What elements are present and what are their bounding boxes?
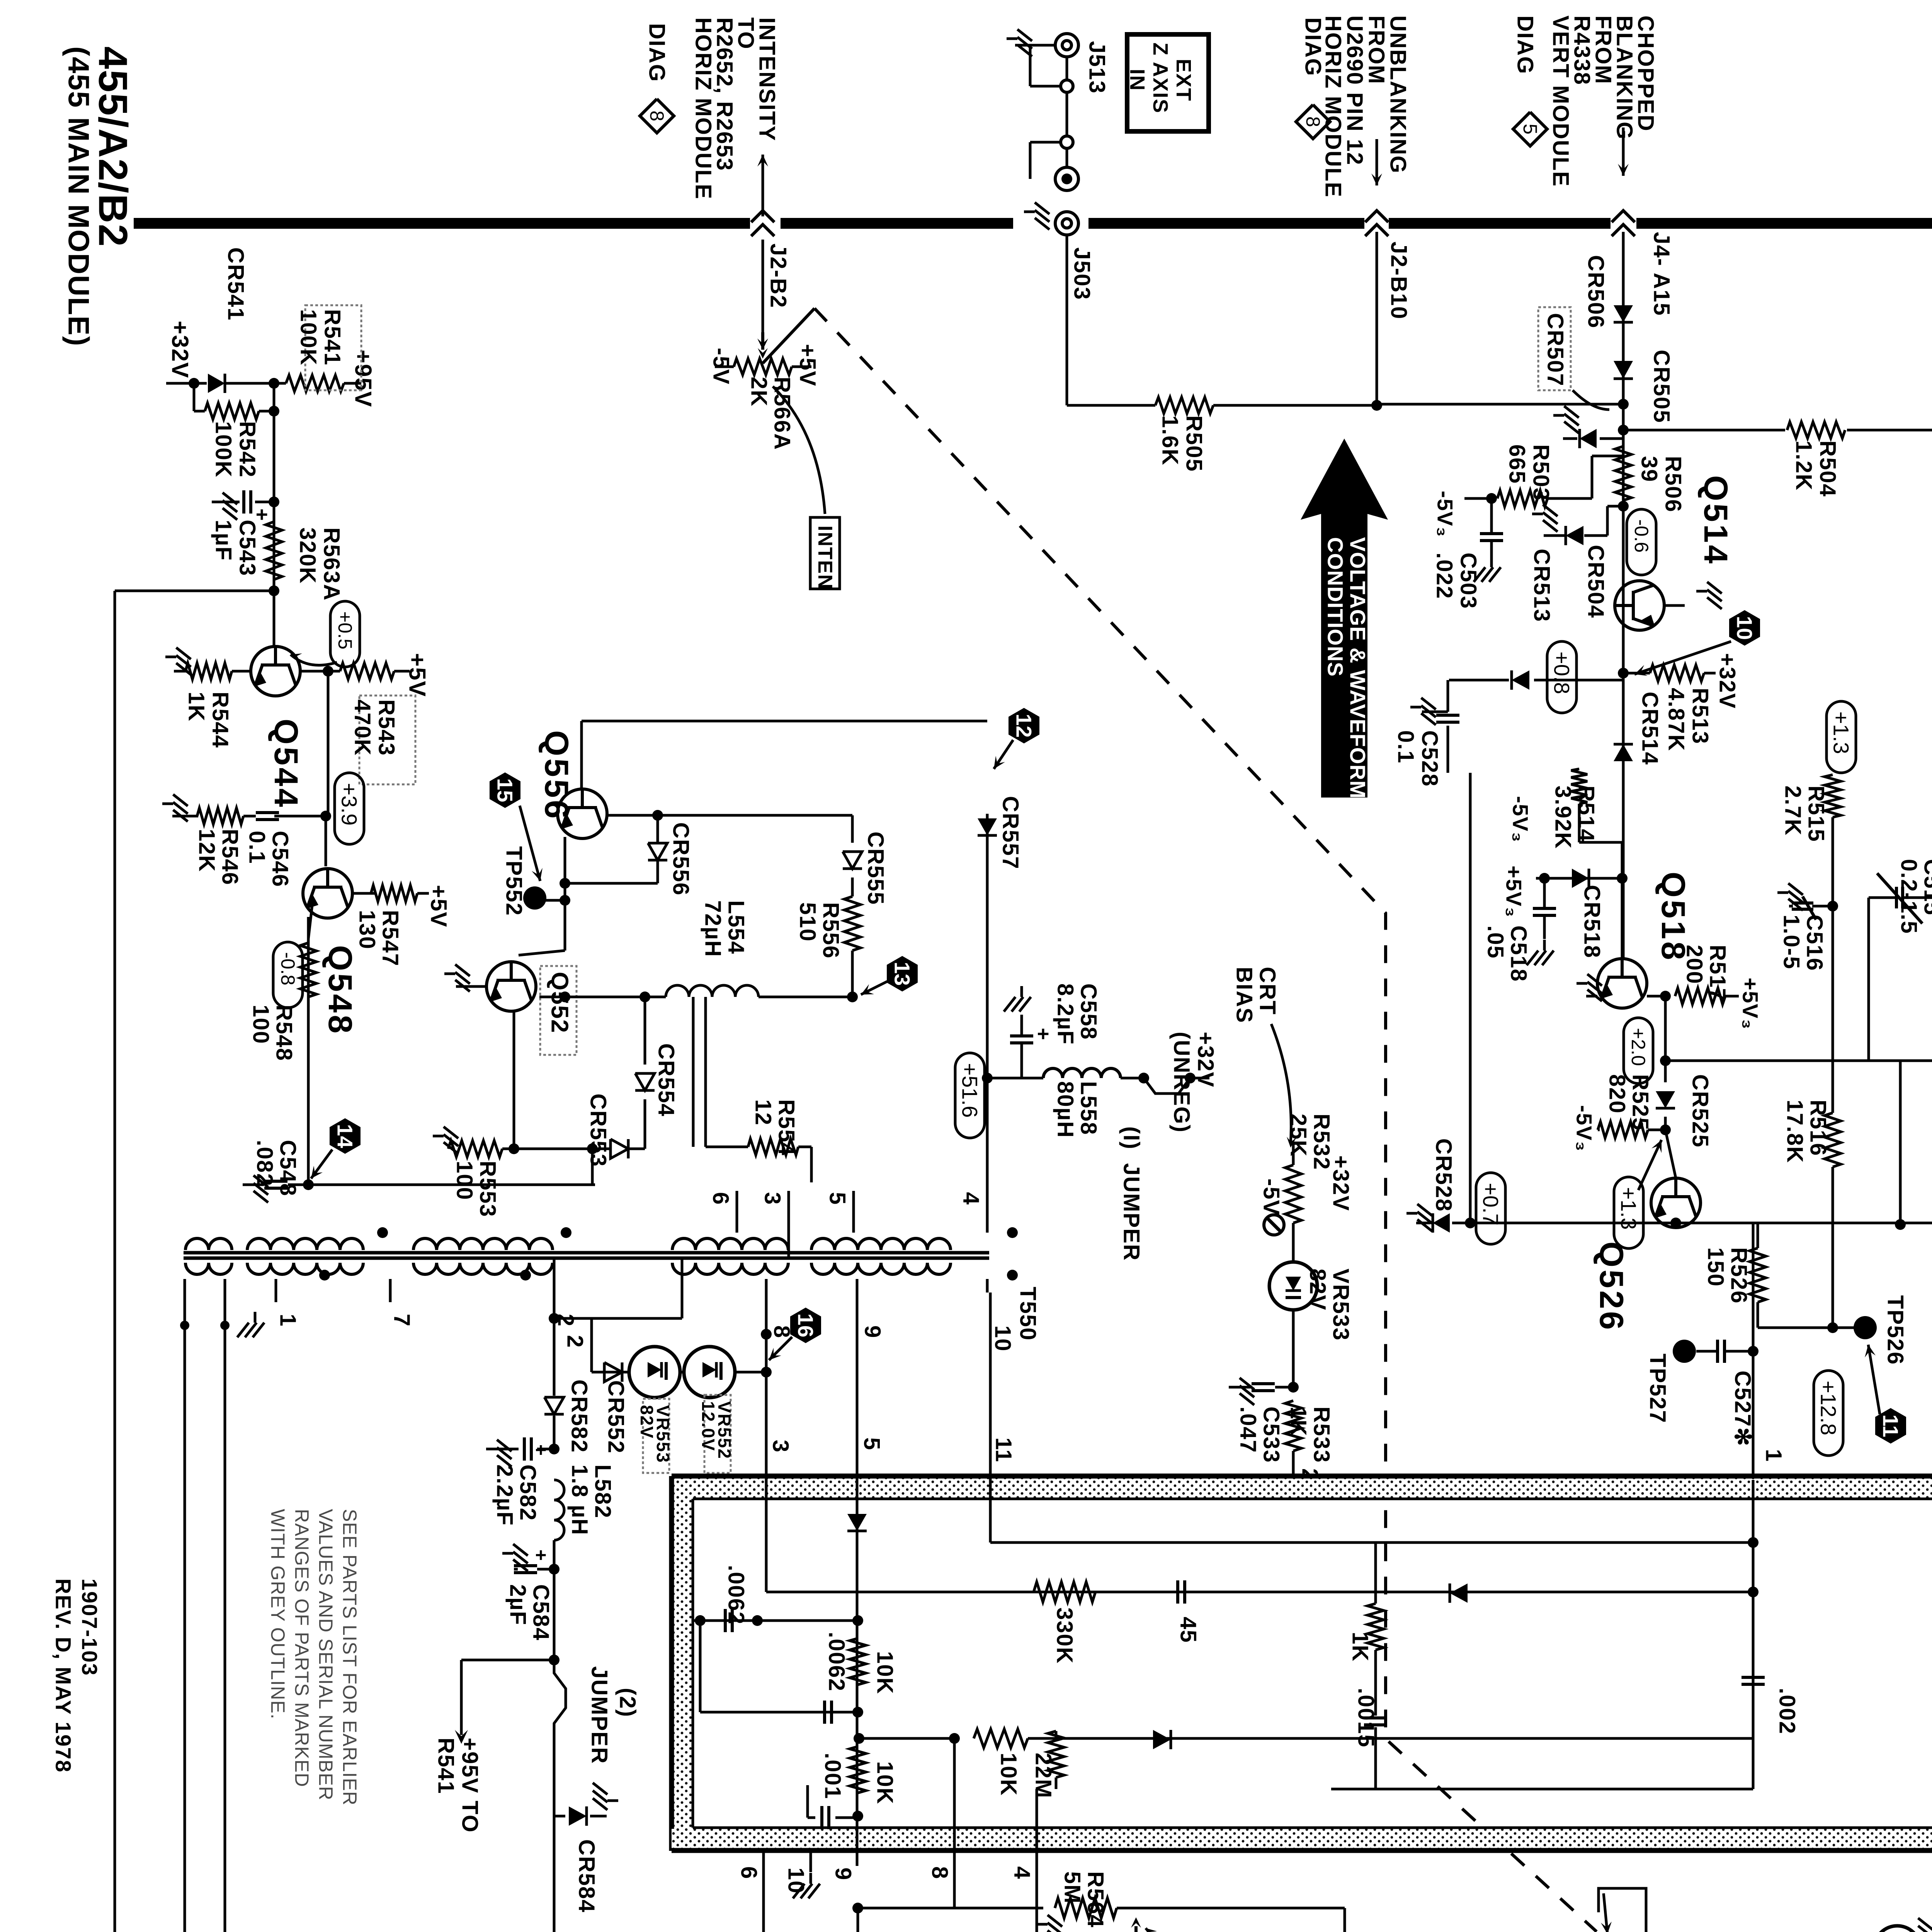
svg-text:(2): (2)	[615, 1688, 640, 1718]
svg-text:J513: J513	[1085, 41, 1110, 94]
svg-text:C533: C533	[1259, 1406, 1284, 1463]
svg-text:R513: R513	[1688, 688, 1713, 745]
svg-text:1µF: 1µF	[211, 520, 236, 561]
svg-text:4: 4	[959, 1192, 984, 1205]
svg-text:4.87K: 4.87K	[1664, 688, 1689, 752]
svg-text:16: 16	[794, 1313, 818, 1337]
svg-text:+5V: +5V	[426, 885, 451, 928]
svg-text:100: 100	[248, 1005, 274, 1044]
svg-text:-5V₃: -5V₃	[1509, 796, 1533, 843]
svg-text:J503: J503	[1070, 247, 1095, 300]
svg-text:3: 3	[760, 1192, 785, 1205]
svg-text:TP527: TP527	[1645, 1354, 1670, 1423]
svg-text:L558: L558	[1076, 1081, 1101, 1135]
svg-text:5: 5	[1519, 124, 1541, 134]
svg-text:1K: 1K	[1286, 1406, 1311, 1437]
svg-text:C527✻: C527✻	[1730, 1371, 1755, 1447]
svg-text:CR513: CR513	[1529, 549, 1554, 622]
svg-text:VR533: VR533	[1328, 1269, 1354, 1341]
svg-text:+32V: +32V	[1328, 1155, 1354, 1211]
svg-text:8: 8	[927, 1866, 952, 1879]
svg-text:-5V₃: -5V₃	[1572, 1105, 1597, 1152]
svg-text:CR528: CR528	[1431, 1138, 1456, 1212]
svg-text:200: 200	[1682, 945, 1707, 985]
svg-text:6: 6	[708, 1192, 733, 1205]
svg-text:DIAG: DIAG	[1301, 17, 1326, 77]
svg-text:5: 5	[825, 1192, 850, 1205]
svg-text:SEE PARTS LIST FOR EARLIER: SEE PARTS LIST FOR EARLIER	[339, 1509, 361, 1806]
svg-text:0.1: 0.1	[245, 831, 270, 864]
svg-text:+1.3: +1.3	[1829, 711, 1854, 754]
svg-text:TP552: TP552	[502, 846, 527, 916]
svg-text:12K: 12K	[194, 829, 219, 872]
svg-text:25K: 25K	[1286, 1114, 1311, 1157]
svg-text:3.92K: 3.92K	[1551, 786, 1576, 849]
svg-text:R526: R526	[1726, 1247, 1752, 1304]
svg-text:1907-103: 1907-103	[78, 1578, 102, 1676]
svg-text:1.8 µH: 1.8 µH	[567, 1464, 592, 1536]
svg-text:C558: C558	[1076, 983, 1101, 1040]
svg-text:EXT: EXT	[1172, 59, 1195, 102]
svg-text:10K: 10K	[996, 1753, 1021, 1796]
svg-text:11: 11	[1879, 1414, 1903, 1437]
svg-text:CR555: CR555	[863, 832, 888, 905]
svg-text:+95V: +95V	[350, 350, 376, 408]
svg-text:+: +	[530, 1444, 552, 1456]
svg-text:5M: 5M	[1060, 1871, 1085, 1904]
svg-text:DIAG: DIAG	[1513, 15, 1538, 75]
svg-text:9: 9	[831, 1867, 856, 1881]
svg-text:INTEN: INTEN	[814, 526, 836, 590]
svg-text:R504: R504	[1815, 440, 1840, 497]
svg-text:R547: R547	[378, 910, 403, 967]
svg-text:1: 1	[276, 1314, 301, 1327]
svg-text:+0.7: +0.7	[1479, 1183, 1503, 1226]
svg-text:CR506: CR506	[1583, 255, 1609, 329]
svg-text:+12.8: +12.8	[1816, 1381, 1841, 1435]
svg-text:2: 2	[563, 1335, 588, 1348]
svg-text:CR557: CR557	[998, 796, 1023, 870]
svg-text:320K: 320K	[295, 527, 320, 584]
svg-text:JUMPER: JUMPER	[587, 1666, 612, 1764]
svg-text:DIAG: DIAG	[645, 23, 670, 82]
svg-text:0.1: 0.1	[1393, 730, 1418, 764]
svg-text:13: 13	[890, 962, 915, 986]
svg-text:665: 665	[1505, 444, 1530, 484]
svg-text:R525: R525	[1628, 1074, 1653, 1131]
svg-text:CR541: CR541	[223, 247, 248, 321]
svg-text:CR507: CR507	[1543, 313, 1568, 387]
svg-text:8.2µF: 8.2µF	[1053, 983, 1078, 1045]
svg-text:11: 11	[991, 1437, 1016, 1463]
svg-text:2µF: 2µF	[505, 1584, 531, 1626]
svg-text:R553: R553	[475, 1161, 500, 1218]
svg-text:.001: .001	[820, 1753, 845, 1799]
svg-text:+5V: +5V	[405, 653, 430, 697]
svg-text:+32V: +32V	[1715, 653, 1740, 709]
svg-text:R514: R514	[1574, 786, 1599, 842]
svg-text:C582: C582	[515, 1464, 541, 1521]
svg-text:1.2K: 1.2K	[1791, 440, 1816, 491]
svg-text:CR525: CR525	[1688, 1074, 1713, 1148]
svg-text:820: 820	[1605, 1074, 1630, 1114]
svg-text:-5V: -5V	[709, 348, 734, 385]
svg-text:R554: R554	[774, 1099, 799, 1156]
svg-text:HORIZ MODULE: HORIZ MODULE	[691, 17, 716, 200]
svg-text:-0.8: -0.8	[277, 952, 299, 985]
svg-text:R506: R506	[1661, 456, 1686, 513]
svg-text:2K: 2K	[747, 377, 772, 407]
svg-text:Q552: Q552	[546, 972, 573, 1034]
svg-text:8: 8	[646, 111, 668, 121]
svg-text:+32V: +32V	[1193, 1032, 1218, 1088]
svg-text:Q526: Q526	[1593, 1242, 1630, 1332]
svg-text:RANGES OF PARTS MARKED: RANGES OF PARTS MARKED	[291, 1509, 313, 1787]
svg-text:WITH GREY OUTLINE.: WITH GREY OUTLINE.	[267, 1509, 289, 1719]
svg-text:1K: 1K	[184, 692, 209, 722]
svg-text:.0062: .0062	[724, 1565, 749, 1625]
svg-text:R541: R541	[434, 1738, 459, 1794]
svg-text:CR584: CR584	[574, 1839, 599, 1913]
svg-text:CONDITIONS: CONDITIONS	[1323, 537, 1348, 677]
svg-text:C548: C548	[276, 1140, 301, 1197]
svg-text:+: +	[1032, 1028, 1055, 1041]
svg-text:+0.8: +0.8	[1550, 651, 1574, 694]
svg-text:L554: L554	[724, 900, 749, 954]
svg-text:VERT MODULE: VERT MODULE	[1548, 15, 1573, 187]
svg-text:5: 5	[859, 1437, 884, 1451]
svg-text:R505: R505	[1182, 415, 1207, 472]
svg-text:R548: R548	[272, 1005, 297, 1061]
svg-text:Q544: Q544	[267, 719, 304, 809]
svg-text:72µH: 72µH	[701, 900, 726, 957]
svg-text:CR552: CR552	[604, 1380, 629, 1454]
svg-text:L582: L582	[590, 1464, 616, 1519]
svg-text:.047: .047	[1236, 1406, 1261, 1453]
svg-text:R541: R541	[320, 309, 345, 366]
svg-text:CR518: CR518	[1580, 885, 1605, 959]
svg-text:+95V TO: +95V TO	[457, 1738, 483, 1833]
svg-text:(I): (I)	[1119, 1126, 1144, 1150]
svg-text:7: 7	[389, 1314, 415, 1327]
svg-text:+2.0: +2.0	[1628, 1028, 1649, 1066]
svg-text:.05: .05	[1483, 925, 1508, 959]
svg-text:CR505: CR505	[1649, 350, 1674, 423]
svg-text:-5V: -5V	[1259, 1179, 1284, 1216]
svg-text:2.2µF: 2.2µF	[492, 1464, 517, 1526]
svg-text:CR553: CR553	[586, 1094, 611, 1167]
svg-text:10: 10	[990, 1325, 1015, 1352]
svg-text:80µH: 80µH	[1053, 1081, 1078, 1138]
svg-text:T550: T550	[1015, 1287, 1041, 1341]
svg-text:CR554: CR554	[654, 1043, 679, 1117]
svg-text:+32V: +32V	[167, 321, 193, 379]
svg-text:-5V₃: -5V₃	[1433, 491, 1458, 537]
svg-text:130: 130	[355, 910, 380, 950]
svg-text:C546: C546	[268, 831, 293, 888]
svg-text:R533: R533	[1309, 1406, 1334, 1463]
svg-text:R542: R542	[235, 421, 260, 478]
svg-text:+3.9: +3.9	[337, 783, 362, 826]
svg-text:1K: 1K	[1348, 1632, 1373, 1662]
svg-text:C528: C528	[1417, 730, 1442, 787]
svg-text:+51.6: +51.6	[958, 1063, 982, 1118]
svg-text:CRT: CRT	[1255, 967, 1280, 1015]
svg-text:R543: R543	[374, 699, 399, 756]
svg-text:-0.6: -0.6	[1631, 519, 1652, 553]
svg-text:510: 510	[795, 902, 820, 942]
svg-text:1: 1	[1761, 1449, 1786, 1462]
svg-text:CR556: CR556	[668, 822, 694, 896]
svg-text:C518: C518	[1506, 925, 1531, 982]
svg-text:C543: C543	[235, 520, 260, 577]
svg-text:455/A2/B2: 455/A2/B2	[90, 46, 136, 247]
svg-text:Q514: Q514	[1697, 475, 1734, 566]
svg-text:R556: R556	[818, 902, 844, 959]
svg-text:470K: 470K	[350, 699, 375, 756]
svg-text:1.6K: 1.6K	[1158, 415, 1183, 466]
svg-text:+: +	[530, 1549, 552, 1561]
svg-text:C503: C503	[1456, 553, 1481, 609]
svg-text:C516: C516	[1802, 915, 1827, 971]
svg-text:VALUES AND SERIAL NUMBER: VALUES AND SERIAL NUMBER	[315, 1509, 337, 1801]
svg-text:REV. D, MAY 1978: REV. D, MAY 1978	[51, 1578, 76, 1773]
svg-text:1.0-5: 1.0-5	[1779, 915, 1804, 969]
svg-text:CR582: CR582	[567, 1379, 592, 1453]
svg-text:9: 9	[860, 1325, 885, 1338]
svg-text:(455 MAIN MODULE): (455 MAIN MODULE)	[62, 46, 95, 347]
svg-text:R546: R546	[218, 829, 243, 886]
svg-text:R564: R564	[1083, 1871, 1108, 1928]
svg-text:100: 100	[452, 1161, 477, 1201]
svg-text:J2-B2: J2-B2	[766, 243, 791, 308]
svg-text:R544: R544	[208, 692, 233, 748]
svg-text:IN: IN	[1126, 69, 1149, 91]
svg-text:+0.5: +0.5	[334, 611, 356, 650]
svg-text:R517: R517	[1705, 945, 1730, 1002]
svg-text:10: 10	[1733, 616, 1757, 640]
svg-text:.002: .002	[1775, 1688, 1800, 1735]
svg-text:Z AXIS: Z AXIS	[1149, 43, 1172, 114]
svg-text:3: 3	[768, 1440, 793, 1453]
svg-text:CR514: CR514	[1638, 692, 1663, 765]
svg-text:+5V₃: +5V₃	[1738, 978, 1763, 1030]
svg-text:TP526: TP526	[1883, 1295, 1908, 1365]
svg-text:14: 14	[333, 1124, 357, 1148]
svg-text:10K: 10K	[872, 1761, 898, 1804]
svg-text:(UNREG): (UNREG)	[1169, 1032, 1194, 1133]
svg-text:12: 12	[1012, 714, 1036, 738]
svg-text:12.0V: 12.0V	[698, 1401, 718, 1451]
svg-text:45: 45	[1176, 1617, 1201, 1643]
svg-text:12: 12	[751, 1099, 776, 1126]
svg-text:17.8K: 17.8K	[1782, 1100, 1808, 1163]
svg-text:J2-B10: J2-B10	[1386, 241, 1412, 320]
svg-text:Q548: Q548	[321, 945, 359, 1036]
svg-text:10: 10	[784, 1867, 809, 1894]
svg-text:VOLTAGE & WAVEFORM: VOLTAGE & WAVEFORM	[1346, 537, 1370, 799]
svg-text:15: 15	[493, 778, 517, 802]
svg-text:+5V: +5V	[795, 344, 820, 387]
svg-text:22M: 22M	[1031, 1753, 1056, 1799]
svg-text:8: 8	[1302, 116, 1324, 127]
svg-text:J4- A15: J4- A15	[1649, 232, 1674, 316]
svg-text:BIAS: BIAS	[1232, 967, 1257, 1024]
svg-text:150: 150	[1703, 1247, 1728, 1287]
svg-text:JUMPER: JUMPER	[1119, 1163, 1144, 1261]
svg-text:2.7K: 2.7K	[1781, 786, 1806, 836]
svg-text:R563A: R563A	[319, 527, 344, 601]
svg-text:+5V₃: +5V₃	[1502, 866, 1526, 918]
svg-text:6: 6	[736, 1866, 762, 1879]
svg-text:R516: R516	[1806, 1100, 1831, 1156]
svg-text:100K: 100K	[211, 421, 236, 478]
svg-text:330K: 330K	[1052, 1607, 1077, 1664]
svg-text:.082: .082	[252, 1140, 277, 1187]
svg-text:10K: 10K	[872, 1651, 898, 1694]
svg-text:82V: 82V	[1305, 1269, 1330, 1311]
svg-text:39: 39	[1637, 456, 1662, 483]
svg-text:82V: 82V	[637, 1405, 657, 1439]
svg-text:CR504: CR504	[1583, 545, 1609, 619]
svg-text:.022: .022	[1432, 553, 1457, 599]
svg-text:4: 4	[1010, 1866, 1035, 1879]
svg-text:100K: 100K	[296, 309, 321, 366]
svg-text:C584: C584	[529, 1584, 554, 1641]
